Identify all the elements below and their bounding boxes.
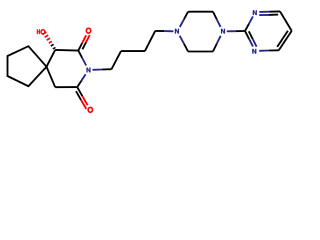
nitrogen label N8 <box>86 68 90 73</box>
nitrogen label N1 piperazine <box>175 29 179 34</box>
carbonyl C9=O double bond <box>77 87 82 96</box>
hydroxyl label HO <box>37 29 40 34</box>
carbonyl C7=O double bond <box>78 43 82 51</box>
bond C7-N8 <box>78 51 82 58</box>
bond CBL-N1 piperazine <box>184 44 188 52</box>
bond N1-CTL piperazine <box>180 19 184 27</box>
nitrogen label N3 pyrimidine <box>252 49 256 54</box>
bond C6-C7 <box>55 49 78 52</box>
chemical structure diagram: 6-hydroxybuspirone <box>0 0 300 121</box>
bond N8-C9 <box>81 74 85 80</box>
bond CBR-CBL piperazine <box>188 51 213 53</box>
bond N8-C1' <box>93 69 103 71</box>
bond C4-N3 pyrimidine <box>269 49 279 51</box>
bond C2'-C3' <box>121 50 145 52</box>
bond N2-C2 pyrimidine <box>227 30 236 32</box>
double bond N3=C2 pyrimidine <box>249 39 253 47</box>
double bond C5=C4 pyrimidine <box>279 31 292 50</box>
bond C4'-N1 piperazine <box>155 30 164 32</box>
nitrogen label N1 pyrimidine <box>253 10 257 15</box>
bond spiro-C6 <box>47 50 56 67</box>
cyclopentane ring <box>8 46 47 86</box>
bond CTL-CTR piperazine <box>188 11 213 13</box>
bond C6-C5 pyrimidine <box>280 11 292 31</box>
bond C2-N1 pyrimidine <box>245 24 249 31</box>
double bond N1=C6 pyrimidine <box>259 11 269 13</box>
bond C9-C10 <box>55 86 77 88</box>
bond C10-spiro <box>47 67 56 88</box>
bond C3'-C4' <box>145 31 155 51</box>
bond N2-CBR piperazine <box>217 36 221 44</box>
oxygen label O bottom <box>87 107 93 113</box>
oxygen label O top <box>86 28 92 34</box>
hashed wedge bond C6-OH <box>43 32 47 34</box>
bond C1'-C2' <box>112 51 122 69</box>
bond CTR-N2 piperazine <box>213 12 217 20</box>
nitrogen label N2 piperazine <box>221 29 225 34</box>
